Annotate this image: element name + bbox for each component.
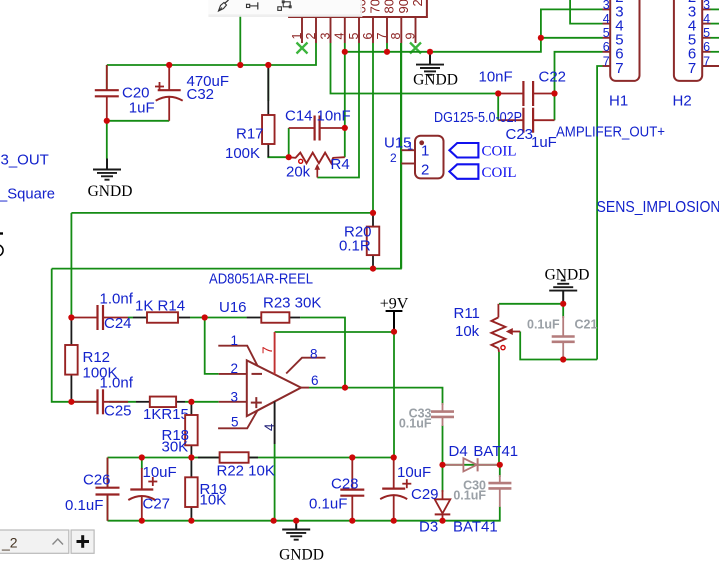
svg-text:5: 5 — [703, 26, 710, 40]
label R18 — [162, 427, 190, 444]
IC pin 2 stub — [315, 17, 317, 43]
svg-text:R22 10K: R22 10K — [217, 463, 275, 480]
label R12 value 100K — [83, 365, 118, 382]
power flag +9V — [380, 296, 409, 332]
junction C29 bottom — [391, 518, 397, 524]
svg-text:20k: 20k — [286, 164, 311, 181]
svg-text:0.1uF: 0.1uF — [453, 489, 486, 503]
sheet tab widget — [0, 530, 69, 553]
capacitor C26 — [96, 458, 120, 521]
wire pin7 stub to GNDD row — [386, 43, 388, 52]
wire C27 top green — [141, 458, 143, 470]
diode D4 (BAT41) — [443, 458, 500, 471]
H2 pin number 3 (outside) — [703, 0, 710, 12]
svg-text:4: 4 — [262, 423, 277, 431]
svg-text:3_OUT: 3_OUT — [1, 152, 49, 169]
svg-text:7: 7 — [375, 33, 389, 40]
capacitor C14 — [289, 116, 345, 141]
svg-text:5: 5 — [347, 33, 361, 40]
svg-text:_2: _2 — [1, 535, 18, 551]
IC pin 7 stub — [386, 17, 388, 43]
label C30 value 0.1uF (faded) — [453, 489, 486, 503]
net flag COIL (lower) — [449, 164, 478, 179]
U15 pin name 1 (inside) — [421, 143, 429, 160]
svg-text:7: 7 — [703, 54, 710, 68]
junction pin7 on GNDD row — [384, 49, 390, 55]
junction H1 pin3/pin5 — [538, 35, 544, 41]
wire D3 upper lead green — [442, 465, 444, 492]
label C14 value 10nF — [317, 108, 351, 125]
svg-text:0.1uF: 0.1uF — [527, 318, 560, 332]
svg-text:U16: U16 — [219, 299, 247, 316]
op-amp U16 plus symbol — [251, 397, 262, 408]
op-amp pin number 6 — [311, 373, 319, 388]
label R20 — [344, 224, 372, 241]
label C27 — [143, 496, 171, 513]
op-amp pin number 7 (rotated) — [260, 346, 275, 354]
svg-text:+9V: +9V — [380, 296, 409, 313]
svg-text:4: 4 — [333, 33, 347, 40]
capacitor C22 — [498, 81, 554, 106]
H2 pin 4 stub — [702, 23, 710, 25]
junction GNDD bottom stem — [293, 518, 299, 524]
IC pin number 5 — [347, 33, 361, 40]
svg-text:1KR15: 1KR15 — [143, 406, 189, 423]
H2 pin number 4 (outside) — [703, 12, 710, 26]
partial component at left edge — [0, 234, 3, 256]
wire vertical under toolbar to C20 row — [239, 16, 241, 65]
label D4 — [449, 443, 468, 460]
op-amp pin 3 lead — [219, 401, 247, 403]
svg-text:D4: D4 — [449, 443, 468, 460]
svg-text:C14: C14 — [285, 108, 313, 125]
net label COIL (upper) — [482, 144, 517, 160]
svg-text:C23: C23 — [506, 126, 534, 143]
svg-text:2: 2 — [421, 162, 429, 179]
junction R20 top — [370, 210, 376, 216]
H1 pin 5 stub — [603, 37, 611, 39]
net label AMPLIFER_OUT+ — [556, 124, 665, 141]
wire +9V rail to op-amp pin7 — [275, 331, 394, 333]
toolbar icon move-copy — [278, 1, 291, 11]
junction C22 right — [551, 90, 557, 96]
label C32 value 470uF — [187, 73, 230, 90]
H1 pin 6 stub — [603, 51, 611, 53]
junction +9V — [391, 329, 397, 335]
svg-text:C29: C29 — [411, 486, 439, 503]
C27 plus sign — [148, 477, 157, 486]
svg-text:H2: H2 — [673, 93, 692, 110]
H1 pin number 3 (outside) — [603, 0, 610, 12]
IC pin name 2 (rotated, cut) — [410, 0, 425, 7]
svg-text:D3: D3 — [419, 519, 438, 536]
label R11 — [454, 305, 480, 322]
svg-text:AMPLIFER_OUT+: AMPLIFER_OUT+ — [556, 124, 665, 141]
label U16 — [219, 299, 247, 316]
IC pin number 1 — [290, 33, 304, 40]
svg-text:8: 8 — [310, 347, 318, 362]
diode D3 (BAT41) — [435, 490, 451, 521]
wire R17 top lead — [267, 65, 269, 101]
H1 pin 7 stub — [603, 65, 611, 67]
wire top-left C20/C32 row — [107, 43, 316, 65]
H2 pin name 6 (inside) — [688, 46, 696, 63]
wire op-amp output to C33 — [309, 388, 443, 405]
op-amp pin number 1 — [231, 333, 239, 348]
svg-text:1: 1 — [421, 143, 429, 160]
resistor R15 — [136, 397, 185, 408]
IC pin number 6 — [361, 33, 375, 40]
svg-text:7: 7 — [603, 54, 610, 68]
wire D4 row — [443, 464, 500, 466]
label C25 value 1.0nf — [100, 375, 134, 392]
junction D3 bottom — [439, 518, 445, 524]
svg-text:7: 7 — [688, 60, 696, 77]
svg-text:R17: R17 — [236, 126, 264, 143]
svg-text:BAT41: BAT41 — [453, 519, 498, 536]
wire pin3 down and right to C22 (net AMPLIFER_OUT+) — [331, 43, 499, 94]
header H1 body — [610, 0, 639, 81]
op-amp pin 5 lead — [218, 410, 257, 428]
label C25 — [104, 403, 132, 420]
capacitor C23 — [498, 108, 554, 133]
label C26 — [83, 472, 111, 489]
svg-text:C28: C28 — [331, 476, 359, 493]
U15 pin 1 stub — [401, 149, 415, 151]
wire C24 row to op-amp pin2 node — [128, 317, 133, 319]
H2 pin number 6 (outside) — [703, 40, 710, 54]
IC pin 8 stub — [400, 17, 402, 43]
IC pin number 9 — [403, 33, 417, 40]
label C14 — [285, 108, 313, 125]
IC pin number 4 — [333, 33, 347, 40]
op-amp pin number 8 — [310, 347, 318, 362]
H1 pin name 4 (inside) — [615, 18, 623, 35]
junction C28 top — [349, 454, 355, 460]
net label _Square (cut at left edge) — [0, 186, 55, 203]
junction C32 top — [166, 62, 172, 68]
toolbar icon pen — [219, 0, 229, 11]
junction R15/R18 — [188, 399, 194, 405]
U15 pin number 2 (outside) — [390, 151, 397, 165]
svg-text:10uF: 10uF — [397, 464, 431, 481]
header H2 body — [674, 0, 702, 81]
wire mid rail y=457.5 — [108, 457, 394, 459]
connector U15 body — [415, 136, 444, 179]
IC pin 4 stub — [344, 17, 346, 43]
svg-text:COIL: COIL — [482, 144, 517, 160]
IC pin number 7 — [375, 33, 389, 40]
svg-text:H1: H1 — [609, 93, 628, 110]
svg-text:GNDD: GNDD — [413, 72, 458, 89]
IC pin number 8 — [389, 33, 403, 40]
label R15 value+name 1KR15 — [143, 406, 189, 423]
wire pin5 down to R4 wiper — [317, 43, 359, 178]
H1 pin number 7 (outside) — [603, 54, 610, 68]
wire R23 right to output node — [300, 318, 345, 388]
H1 pin name 5 (inside) — [615, 32, 623, 49]
C32 plus sign — [155, 82, 164, 91]
svg-text:2: 2 — [304, 33, 318, 40]
IC pin name 90 (rotated, cut) — [396, 0, 411, 14]
wire C14 left branch — [288, 128, 290, 157]
H1 pin name 3 (inside) — [615, 3, 623, 20]
label C30 (faded) — [463, 479, 486, 493]
wire H1 pin7 to SENS_IMPLOSION down — [597, 66, 602, 360]
label C27 value 10uF — [143, 464, 177, 481]
junction C14 left / R4 — [286, 154, 292, 160]
ground GNDD (left, x=107) — [88, 159, 133, 201]
H1 pin 4 stub — [603, 23, 611, 25]
capacitor C27 — [128, 468, 155, 521]
op-amp pin 1 lead — [218, 346, 257, 366]
IC pin name 70 (rotated, cut) — [368, 0, 383, 14]
svg-text:6: 6 — [703, 40, 710, 54]
label C28 value 0.1uF — [309, 496, 347, 513]
ground GNDD (bottom) — [279, 521, 324, 564]
label C21 value 0.1uF (faded) — [527, 318, 560, 332]
svg-text:_Square: _Square — [0, 186, 55, 203]
label R4 value 20k — [286, 164, 311, 181]
wire H1 pin6 to C22/C23 right — [555, 52, 603, 120]
wire R11 top row to GNDD node — [499, 303, 563, 305]
IC pin 6 stub — [372, 17, 374, 43]
svg-text:0.1uF: 0.1uF — [309, 496, 347, 513]
wire pin4-pin7 to GNDD and H1 pins 3/5 (net GNDD) — [344, 43, 346, 52]
label C20 value 1uF — [129, 100, 155, 117]
op-amp pin 4 lead (V-) — [274, 402, 276, 445]
svg-text:R23 30K: R23 30K — [263, 295, 321, 312]
op-amp U16 minus symbol — [252, 373, 263, 375]
svg-text:3: 3 — [318, 33, 332, 40]
wire H2 pin4 stub — [711, 23, 719, 25]
junction C22 left — [495, 90, 501, 96]
svg-text:0.1uF: 0.1uF — [399, 417, 432, 431]
wire C20 top lead row to ground — [106, 65, 108, 90]
wire C26 top lead drop — [107, 458, 109, 488]
junction C25/R12 bottom — [68, 399, 74, 405]
wire H1 pin4 from top edge — [570, 0, 602, 24]
junction C21 top / GNDD — [560, 301, 566, 307]
capacitor C28 — [340, 458, 364, 521]
op-amp pin 6 lead (output) — [301, 387, 309, 389]
label C26 value 0.1uF — [65, 497, 103, 514]
H2 pin 3 stub — [702, 8, 710, 10]
svg-text:10nF: 10nF — [479, 69, 513, 86]
junction R20 bottom — [370, 266, 376, 272]
wire bottom rail y=520.7 — [108, 507, 500, 521]
svg-text:5: 5 — [603, 26, 610, 40]
svg-text:0.1R: 0.1R — [339, 238, 371, 255]
H2 pin 5 stub — [702, 37, 710, 39]
net label SENS_IMPLOSION — [597, 199, 719, 216]
junction C24/R12 top — [68, 314, 74, 320]
potentiometer R4 — [289, 153, 345, 178]
svg-text:GNDD: GNDD — [88, 183, 133, 200]
op-amp pin number 3 — [231, 390, 239, 405]
svg-text:GNDD: GNDD — [545, 267, 590, 284]
svg-text:7: 7 — [615, 60, 623, 77]
svg-text:30K: 30K — [162, 439, 189, 456]
junction C14 right — [342, 125, 348, 131]
label C33 (faded) — [409, 407, 432, 421]
H2 pin name 2 (inside) — [688, 0, 696, 6]
svg-text:3: 3 — [603, 0, 610, 12]
svg-text:C27: C27 — [143, 496, 171, 513]
junction C27 bottom — [139, 518, 145, 524]
label C24 value 1.0nf — [100, 291, 134, 308]
capacitor C33 (faded) — [431, 403, 454, 426]
wire C26 bottom lead — [107, 495, 109, 521]
IC pin 1 stub — [301, 17, 303, 43]
junction GNDD stem top — [427, 49, 433, 55]
svg-text:C22: C22 — [539, 69, 567, 86]
svg-text:2: 2 — [231, 361, 239, 376]
junction D4/C30/R11 node — [497, 462, 503, 468]
capacitor C30 (faded) — [488, 475, 511, 507]
label C29 value 10uF — [397, 464, 431, 481]
label R14 value+name 1K R14 — [135, 298, 185, 315]
net label COIL (lower) — [482, 165, 517, 181]
capacitor C25 — [71, 389, 128, 414]
wire C30 green to bottom rail — [499, 465, 501, 477]
H1 pin number 6 (outside) — [603, 40, 610, 54]
wire C33 lower lead to D4 node — [442, 425, 444, 465]
svg-text:9: 9 — [403, 33, 417, 40]
H2 pin number 5 (outside) — [703, 26, 710, 40]
wire R14 to R23 node — [190, 317, 247, 319]
resistor R23 — [247, 312, 301, 323]
junction C21 bottom — [560, 356, 566, 362]
resistor R22 — [198, 452, 258, 463]
junction R14/R23/pin2 node — [202, 314, 208, 320]
svg-text:COIL: COIL — [482, 165, 517, 181]
svg-text:4: 4 — [603, 12, 610, 26]
wire H1 pin5 branch — [541, 37, 603, 39]
label R17 — [236, 126, 264, 143]
wire R20 row from left column — [71, 212, 373, 214]
capacitor C21 (faded) — [552, 316, 575, 360]
wire C20 junction down to GNDD — [106, 121, 108, 159]
op-amp pin 2 lead — [219, 373, 247, 375]
svg-text:C26: C26 — [83, 472, 111, 489]
IC pin number 3 — [318, 33, 332, 40]
capacitor C29 — [380, 458, 407, 521]
svg-text:0.1uF: 0.1uF — [65, 497, 103, 514]
svg-text:3: 3 — [703, 0, 710, 12]
wire +9V rail down to C29 — [393, 332, 395, 458]
wire pin6 down to R20 — [372, 43, 374, 213]
H1 pin 3 stub — [603, 8, 611, 10]
svg-text:10uF: 10uF — [143, 464, 177, 481]
op-amp pin number 2 — [231, 361, 239, 376]
wire net GNDD horizontal row — [345, 9, 603, 51]
ground GNDD (top, x=430) — [413, 52, 458, 89]
wire left column x=71 down to C24 row — [70, 213, 72, 318]
H2 pin name 5 (inside) — [688, 32, 696, 49]
svg-text:1.0nf: 1.0nf — [100, 291, 134, 308]
svg-text:4: 4 — [703, 12, 710, 26]
junction vertical riser — [237, 62, 243, 68]
IC pin 9 stub — [415, 17, 417, 43]
resistor R18 — [185, 402, 198, 458]
op-amp pin 7 lead (V+) — [274, 332, 276, 374]
U15 pin number 1 (outside) — [407, 141, 413, 153]
H1 pin name 2 (inside) — [615, 0, 623, 6]
label C21 (faded) — [575, 318, 598, 332]
label R17 value 100K — [225, 145, 260, 162]
label AD8051AR-REEL — [209, 271, 313, 288]
label R23 value+name R23 30K — [263, 295, 321, 312]
wire GNDD node to C21 top — [562, 304, 564, 318]
ground GNDD (inverted, right) — [545, 267, 590, 304]
label R18 value 30K — [162, 439, 189, 456]
svg-text:10nF: 10nF — [317, 108, 351, 125]
svg-text:3: 3 — [231, 390, 239, 405]
svg-text:C25: C25 — [104, 403, 132, 420]
net flag COIL (upper) — [449, 143, 478, 158]
junction C20/C32 bottom — [104, 118, 110, 124]
wire pin4 down to C14 and R4 — [344, 52, 346, 157]
junction pin4 on GNDD row — [342, 49, 348, 55]
capacitor C24 — [71, 305, 128, 330]
wire R15 right to op-amp pin3 — [185, 401, 219, 403]
label DG125-5.0-02P — [434, 109, 522, 126]
label C23 — [506, 126, 534, 143]
junction R17 top — [265, 62, 271, 68]
label C33 value 0.1uF (faded) — [399, 417, 432, 431]
svg-text:5: 5 — [231, 415, 239, 430]
H1 pin number 5 (outside) — [603, 26, 610, 40]
svg-text:C21: C21 — [575, 318, 598, 332]
junction C33/D4/D3 node — [439, 462, 445, 468]
svg-text:1K R14: 1K R14 — [135, 298, 185, 315]
label R12 — [83, 349, 111, 366]
junction output/R23 feedback — [342, 385, 348, 391]
H1 pin name 6 (inside) — [615, 46, 623, 63]
wire C20 bottom to C32 bottom — [107, 120, 169, 122]
IC body top (cut off at top edge) — [288, 0, 427, 17]
H2 pin 7 stub — [702, 65, 719, 67]
IC pin 5 stub — [358, 17, 360, 43]
wire left column x=52 to C25 row — [52, 269, 72, 402]
wire R11 wiper down — [520, 332, 563, 360]
label C22 — [539, 69, 567, 86]
op-amp pin number 5 — [231, 415, 239, 430]
wire R11 bottom down to D4 node — [498, 352, 501, 465]
no-connect X on pin 1 — [297, 43, 308, 54]
svg-text:BAT41: BAT41 — [473, 443, 518, 460]
label D3 value BAT41 — [453, 519, 498, 536]
svg-text:8: 8 — [389, 33, 403, 40]
resistor R19 — [185, 458, 198, 521]
svg-text:1uF: 1uF — [129, 100, 155, 117]
H1 pin number 4 (outside) — [603, 12, 610, 26]
label C20 — [122, 85, 150, 102]
wire C21 bottom row to SENS wire — [563, 359, 597, 361]
label R20 value 0.1R — [339, 238, 371, 255]
wire C25 right to R15 — [109, 401, 136, 403]
label H1 — [609, 93, 628, 110]
label C23 value 1uF — [531, 134, 557, 151]
junction C28 bottom — [349, 518, 355, 524]
wire R17 bottom to R4 row — [268, 156, 288, 157]
svg-text:70: 70 — [368, 0, 383, 14]
resistor R20 — [367, 213, 380, 269]
svg-text:SENS_IMPLOSION: SENS_IMPLOSION — [597, 199, 719, 216]
H1 pin name 7 (inside) — [615, 60, 623, 77]
svg-text:DG125-5.0-02P: DG125-5.0-02P — [434, 109, 522, 126]
